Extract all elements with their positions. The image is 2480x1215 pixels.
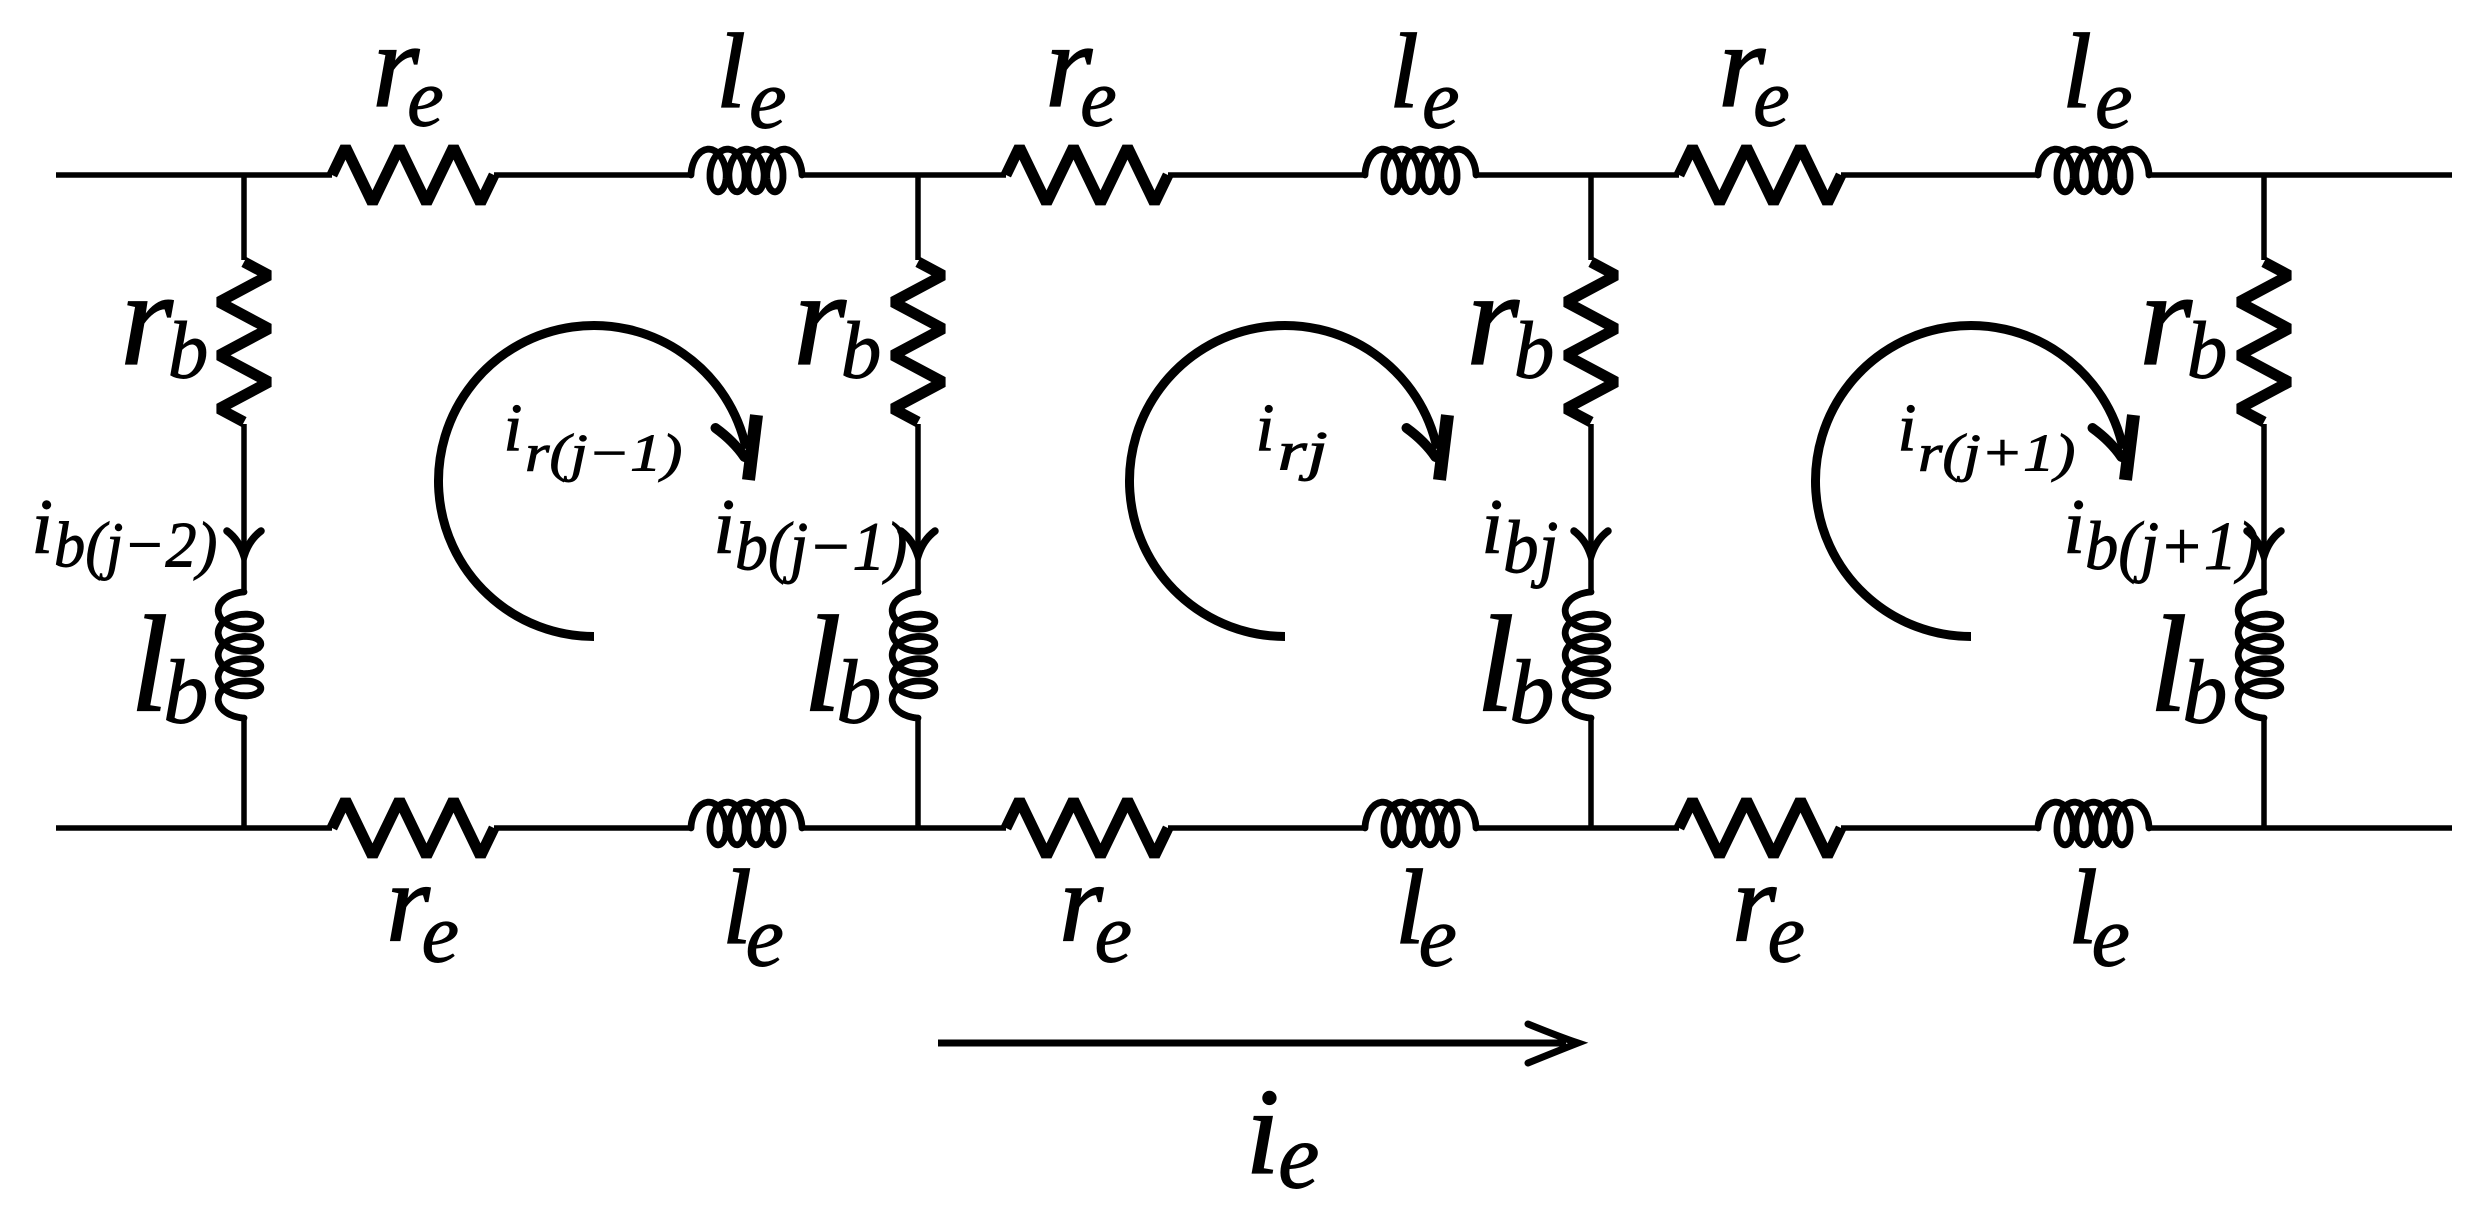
mesh current arrow i_r loop 3 <box>1815 325 2123 636</box>
branch current arrow i_b2 <box>901 531 935 556</box>
svg-text:e: e <box>1768 888 1806 981</box>
resistor r_e top cell 1 <box>332 147 494 203</box>
svg-text:b(j−2): b(j−2) <box>54 510 217 582</box>
svg-text:r: r <box>2139 244 2193 394</box>
resistor r_e bottom cell 3 <box>1679 800 1841 856</box>
inductor l_e bottom cell 2 <box>1365 802 1476 845</box>
wire branch 2 middle <box>915 424 921 594</box>
top rail wire segment 1 <box>56 172 332 178</box>
resistor r_e top cell 2 <box>1006 147 1168 203</box>
svg-text:e: e <box>1080 52 1117 144</box>
inductor l_b branch 3 <box>1565 592 1608 718</box>
svg-text:e: e <box>1095 888 1133 981</box>
svg-text:l: l <box>2062 13 2092 131</box>
inductor l_b branch 1 <box>218 592 261 718</box>
svg-text:e: e <box>1278 1106 1319 1209</box>
svg-text:i: i <box>1481 483 1503 570</box>
top rail wire segment 2 <box>494 172 691 178</box>
branch current arrow i_b4 <box>2247 531 2281 556</box>
resistor r_b branch 1 <box>219 262 269 422</box>
svg-text:i: i <box>2063 483 2085 570</box>
external current arrow i_e line <box>938 1040 1566 1047</box>
svg-text:r: r <box>120 244 174 394</box>
svg-text:i: i <box>1246 1063 1280 1200</box>
svg-text:b: b <box>836 642 881 743</box>
svg-text:b(j+1): b(j+1) <box>2085 507 2259 584</box>
svg-text:bj: bj <box>1503 507 1558 590</box>
svg-text:e: e <box>2092 889 2130 985</box>
bottom rail wire segment 5 <box>1476 825 1679 831</box>
svg-text:l: l <box>716 13 746 131</box>
mesh current arrow i_r loop 2 <box>1129 325 1437 636</box>
top rail wire segment 5 <box>1476 172 1679 178</box>
wire branch 2 lower <box>915 716 921 828</box>
top rail wire segment 7 <box>2149 172 2452 178</box>
vertical wire branch 2 upper <box>915 175 921 260</box>
svg-text:b: b <box>2187 306 2228 396</box>
bottom rail wire segment 3 <box>802 825 1006 831</box>
top rail wire segment 6 <box>1841 172 2038 178</box>
svg-text:l: l <box>1389 13 1419 131</box>
vertical wire branch 3 upper <box>1588 175 1594 260</box>
branch current arrow i_b3 <box>1574 531 1608 556</box>
svg-text:b: b <box>841 306 882 396</box>
wire branch 1 middle <box>241 424 247 594</box>
wire branch 3 middle <box>1588 424 1594 594</box>
svg-text:i: i <box>504 390 523 466</box>
inductor l_e bottom cell 1 <box>691 802 802 845</box>
resistor r_b branch 4 <box>2239 262 2289 422</box>
svg-text:e: e <box>1753 52 1790 144</box>
bottom rail wire segment 1 <box>56 825 332 831</box>
svg-text:b: b <box>1509 642 1554 743</box>
svg-text:b: b <box>1514 306 1555 396</box>
resistor r_b branch 2 <box>893 262 943 422</box>
svg-text:e: e <box>1419 889 1457 985</box>
bottom rail wire segment 6 <box>1841 825 2038 831</box>
inductor l_e top cell 1 <box>691 149 802 192</box>
svg-text:r: r <box>793 244 847 394</box>
top rail wire segment 3 <box>802 172 1006 178</box>
svg-text:r(j+1): r(j+1) <box>1918 425 2075 483</box>
svg-text:rj: rj <box>1278 421 1328 482</box>
svg-text:e: e <box>749 54 787 147</box>
inductor l_e top cell 2 <box>1365 149 1476 192</box>
svg-text:r(j−1): r(j−1) <box>525 425 682 483</box>
resistor r_b branch 3 <box>1566 262 1616 422</box>
top rail wire segment 4 <box>1168 172 1365 178</box>
vertical wire branch 1 upper <box>241 175 247 260</box>
wire branch 4 middle <box>2261 424 2267 594</box>
bottom rail wire segment 4 <box>1168 825 1365 831</box>
svg-text:b: b <box>2182 642 2227 743</box>
svg-text:e: e <box>746 889 784 985</box>
inductor l_b branch 2 <box>892 592 935 718</box>
svg-text:e: e <box>407 52 444 144</box>
bottom rail wire segment 7 <box>2149 825 2452 831</box>
svg-text:b(j−1): b(j−1) <box>735 509 907 585</box>
svg-text:i: i <box>31 483 53 570</box>
svg-text:i: i <box>1256 390 1275 466</box>
svg-text:i: i <box>1898 390 1917 466</box>
svg-text:b: b <box>168 306 209 396</box>
svg-text:i: i <box>713 483 735 570</box>
resistor r_e bottom cell 1 <box>332 800 494 856</box>
resistor r_e top cell 3 <box>1679 147 1841 203</box>
svg-text:e: e <box>1422 54 1460 147</box>
svg-text:e: e <box>2095 54 2133 147</box>
branch current arrow i_b1 <box>227 531 261 556</box>
resistor r_e bottom cell 2 <box>1006 800 1168 856</box>
svg-text:r: r <box>1466 244 1520 394</box>
wire branch 3 lower <box>1588 716 1594 828</box>
svg-text:e: e <box>422 888 460 981</box>
inductor l_e bottom cell 3 <box>2038 802 2149 845</box>
bottom rail wire segment 2 <box>494 825 691 831</box>
vertical wire branch 4 upper <box>2261 175 2267 260</box>
external current arrow i_e head <box>1528 1024 1578 1063</box>
inductor l_b branch 4 <box>2238 592 2281 718</box>
mesh current arrow i_r loop 1 <box>438 325 746 636</box>
inductor l_e top cell 3 <box>2038 149 2149 192</box>
wire branch 4 lower <box>2261 716 2267 828</box>
wire branch 1 lower <box>241 716 247 828</box>
svg-text:b: b <box>163 642 208 743</box>
